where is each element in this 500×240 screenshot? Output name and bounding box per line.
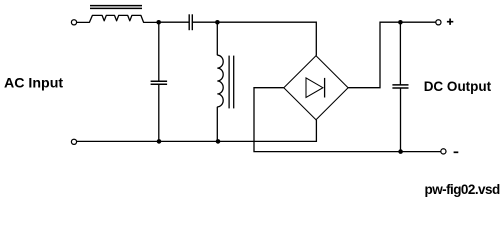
- node: junction bottom rail / C1: [157, 139, 162, 144]
- capacitor C3 bottom plate: [392, 87, 408, 89]
- bridge rectifier BR1 diamond: [284, 56, 348, 120]
- capacitor C3 lower lead wire: [400, 88, 402, 151]
- capacitor C3 upper lead wire: [399, 22, 401, 84]
- capacitor C1 top plate: [151, 80, 168, 82]
- label: minus sign: [454, 151, 459, 153]
- node: junction plus rail / C3: [398, 20, 403, 25]
- terminal: DC output minus: [441, 149, 446, 154]
- capacitor C1 lower lead wire: [158, 85, 160, 142]
- inductor L1 core line upper: [90, 5, 142, 7]
- wire: junction to capacitor C2 left plate: [159, 21, 189, 23]
- wire: junction down to transformer T1 winding: [216, 22, 218, 55]
- wire: transformer T1 winding to bottom rail: [216, 107, 218, 142]
- svg-text:AC Input: AC Input: [4, 75, 63, 91]
- node: junction minus rail / C3: [398, 149, 403, 154]
- terminal: AC input bottom: [71, 139, 76, 144]
- node: junction bottom rail / T1: [216, 139, 221, 144]
- wire: capacitor C2 to bridge top corner: [193, 22, 317, 55]
- node: junction top rail / C1: [156, 20, 161, 25]
- label: plus sign: [447, 19, 453, 25]
- inductor L1 core line lower: [90, 7, 142, 9]
- transformer T1 core line right: [233, 56, 235, 109]
- inductor L1 (line filter choke): [77, 15, 159, 22]
- transformer T1 core line left: [228, 56, 230, 109]
- transformer T1 winding: [217, 55, 223, 107]
- wire: bridge right corner to output plus rail: [348, 22, 436, 88]
- wire: bottom rail to bridge bottom corner: [77, 120, 317, 142]
- capacitor C2 left plate: [188, 14, 190, 30]
- node: junction top rail / transformer T1: [215, 20, 220, 25]
- diode symbol cathode bar: [324, 78, 326, 98]
- svg-text:DC Output: DC Output: [424, 79, 492, 94]
- capacitor C2 right plate: [191, 14, 193, 30]
- wire: bridge left corner to output minus rail: [254, 88, 441, 152]
- svg-text:pw-fig02.vsd: pw-fig02.vsd: [425, 182, 500, 197]
- terminal: AC input top: [71, 20, 76, 25]
- capacitor C1 bottom plate: [151, 83, 168, 85]
- diode symbol triangle inside BR1: [306, 78, 323, 98]
- terminal: DC output plus: [436, 20, 441, 25]
- capacitor C1 upper lead wire: [158, 22, 160, 81]
- capacitor C3 top plate: [392, 84, 408, 86]
